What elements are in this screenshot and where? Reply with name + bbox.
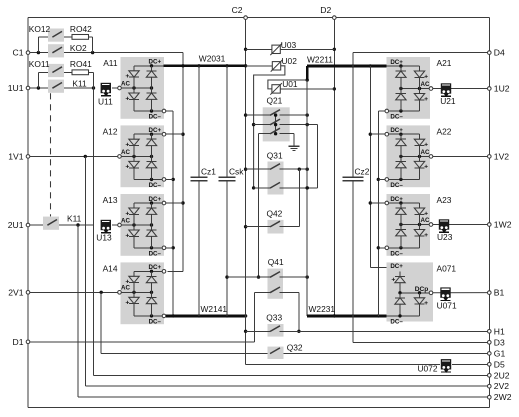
svg-text:U21: U21 [440,96,456,106]
svg-text:D3: D3 [494,337,505,347]
terminal 1V1 [8,151,30,161]
wire A23 exits [370,201,388,249]
wire 1V2 row [433,155,489,157]
svg-text:W2211: W2211 [307,55,333,65]
resistor RO42 [70,24,92,40]
terminal D2 [320,5,336,19]
svg-text:DC+: DC+ [149,127,162,134]
wire U01 riser [306,80,309,316]
svg-text:U071: U071 [437,301,457,311]
svg-text:U03: U03 [281,40,297,50]
svg-text:Q31: Q31 [267,150,283,160]
svg-text:DC–: DC– [149,319,162,326]
terminal D5 [488,359,506,369]
capacitor Csk [219,66,245,316]
wire 1W2 row [433,224,489,226]
wire D5 row [246,363,490,365]
wire A13 DC- exit [162,246,173,250]
svg-text:2U1: 2U1 [8,220,24,230]
field exciter A071 [387,262,457,325]
svg-text:DC+: DC+ [149,264,162,271]
svg-text:DC+: DC+ [390,196,403,203]
svg-text:2U2: 2U2 [494,370,510,380]
svg-text:G1: G1 [494,348,506,358]
svg-text:Csk: Csk [229,167,244,177]
terminal 1V2 [488,151,510,161]
node C2 line [244,20,247,365]
svg-text:+: + [125,279,129,286]
wire Q41 row2 to H1 row [297,293,300,333]
bus W2141 [162,304,247,318]
svg-text:+: + [424,210,428,217]
ground [289,134,300,151]
wire Q31 row1 to Q42 [298,169,300,227]
svg-text:AC: AC [121,80,130,87]
svg-text:KO12: KO12 [29,24,51,34]
svg-text:A21: A21 [437,58,452,68]
terminal 2U1 [8,220,30,230]
svg-text:+: + [125,73,129,80]
svg-text:+: + [424,96,428,103]
terminal G1 [488,348,506,358]
terminal 2U2 [488,370,510,380]
svg-text:A13: A13 [103,195,118,205]
varistor U01 [268,78,334,94]
svg-text:D5: D5 [494,359,505,369]
wire A21 DC- exit [378,109,388,113]
svg-text:Cz2: Cz2 [355,167,370,177]
wire tap to 2V2 [85,156,489,386]
svg-text:U02: U02 [282,56,298,66]
wire KO12 branch [38,37,92,53]
svg-text:Q21: Q21 [267,96,283,106]
wire 1V1 row [28,155,120,158]
svg-text:C2: C2 [232,5,243,15]
terminal 2W2 [488,392,512,402]
svg-text:2W2: 2W2 [494,392,512,402]
svg-text:1V1: 1V1 [8,151,24,161]
svg-text:D4: D4 [494,48,505,58]
converter module A14 [103,262,164,325]
terminal D1 [13,337,30,347]
contact KO11 [29,59,64,77]
wire DC+ chain right [369,66,400,271]
disconnector Q31 [246,150,318,194]
svg-text:A071: A071 [437,264,457,274]
svg-text:DC–: DC– [390,114,403,121]
svg-text:DC–: DC– [390,250,403,257]
svg-text:2V2: 2V2 [494,381,510,391]
svg-text:+: + [125,95,129,102]
wire KO11 branch [38,72,93,88]
svg-text:+: + [125,300,129,307]
converter module A21 [387,57,452,121]
svg-text:DC+: DC+ [390,127,403,134]
current sensor U23 [437,219,453,242]
svg-text:1W2: 1W2 [494,220,512,230]
svg-text:U23: U23 [437,232,453,242]
wire 2U1 row [28,223,120,226]
svg-text:KO2: KO2 [70,43,87,53]
current sensor U13 [96,220,112,243]
bus W2231 [307,304,386,317]
svg-text:C1: C1 [13,48,24,58]
svg-text:A23: A23 [437,195,452,205]
terminal 2V2 [488,381,510,391]
svg-text:1V2: 1V2 [494,151,510,161]
wire A14 DC+ exit [162,270,166,274]
wire tap to 2W2 [78,225,489,397]
current sensor U11 [98,83,113,107]
wire A22 exits [370,132,388,181]
wire A12 DC+ exit [162,132,183,136]
disconnector Q33 [246,312,490,336]
terminal B1 [488,288,505,298]
svg-text:DC–: DC– [149,250,162,257]
svg-text:+: + [424,164,428,171]
converter module A13 [103,194,164,257]
wire D1 row [28,293,255,342]
disconnector Q41 [227,257,309,299]
terminal C1 [13,48,30,58]
svg-text:A11: A11 [103,58,118,68]
svg-text:Q41: Q41 [268,257,284,267]
wire Q21 row3 drop [257,134,260,279]
svg-text:D2: D2 [320,5,331,15]
svg-text:+: + [391,277,395,284]
svg-text:K11: K11 [72,78,87,88]
svg-text:A22: A22 [437,127,452,137]
wire 1U1 row [28,86,120,89]
terminal D4 [488,48,506,58]
varistor U02 [246,56,298,189]
svg-text:AC: AC [121,217,130,224]
wire tap to G1 row [101,292,489,353]
contact KO2 [48,43,87,57]
svg-text:U13: U13 [96,233,112,243]
svg-text:AC: AC [421,149,430,156]
svg-text:A14: A14 [103,264,118,274]
svg-text:W2141: W2141 [201,304,228,314]
svg-text:+: + [125,164,129,171]
converter module A22 [387,125,452,189]
current sensor U21 [440,83,456,106]
svg-text:Q32: Q32 [287,342,303,352]
svg-text:U11: U11 [98,97,113,107]
terminal 1W2 [488,220,512,230]
svg-text:DC–: DC– [149,114,162,121]
svg-text:AC: AC [421,81,430,88]
wire tap to 2U2 [94,88,490,375]
svg-text:+: + [424,232,428,239]
svg-text:1U2: 1U2 [494,84,510,94]
disconnector Q42 [246,209,300,234]
svg-text:DCp: DCp [415,286,429,293]
svg-text:RO42: RO42 [70,24,92,34]
bus W2031 [164,54,246,68]
svg-text:A12: A12 [103,127,118,137]
svg-text:1U1: 1U1 [8,83,24,93]
svg-text:DC–: DC– [390,182,403,189]
terminal H1 [488,326,506,336]
current sensor U071 [437,287,457,310]
svg-text:AC: AC [421,217,430,224]
converter module A12 [103,125,164,189]
wire A12 DC- exit [162,178,173,182]
wire A13 DC+ exit [162,201,183,205]
wire B1 row [433,292,489,294]
contact K11 lower [43,214,82,230]
svg-text:+: + [424,300,428,307]
node D2 line [333,20,336,318]
converter module A11 [103,57,164,121]
svg-text:RO41: RO41 [70,59,92,69]
terminal 1U1 [8,83,30,93]
svg-text:+: + [424,142,428,149]
svg-text:+: + [125,142,129,149]
contact KO12 [29,24,64,42]
varistor U03 [246,40,335,55]
converter module A23 [387,194,452,257]
wire C1 row [28,51,183,54]
svg-text:AC: AC [121,149,130,156]
svg-text:DC+: DC+ [390,263,403,270]
wire DC+ chain from C1 [168,53,185,272]
wire A11 DC- to chain [162,109,175,317]
svg-text:U01: U01 [282,79,298,89]
svg-text:W2231: W2231 [309,304,336,314]
svg-text:+: + [424,73,428,80]
svg-text:H1: H1 [494,326,505,336]
terminal 1U2 [488,84,510,94]
svg-text:D1: D1 [13,337,24,347]
wire Q21 row2 to Q31 row2 [316,125,318,188]
svg-text:K11: K11 [67,214,82,224]
contact K11 upper [48,78,87,92]
svg-text:W2031: W2031 [199,54,226,64]
mechanical link dashed [50,93,52,216]
svg-text:Q33: Q33 [266,312,282,322]
svg-text:DC+: DC+ [390,59,403,66]
svg-text:DC–: DC– [149,182,162,189]
wire 2V1 row [28,291,120,294]
terminal D3 [488,337,506,347]
terminal C2 [232,5,248,19]
svg-text:DC+: DC+ [149,196,162,203]
capacitor Cz2 [342,53,489,343]
capacitor Cz1 [191,66,217,316]
resistor RO41 [70,59,92,75]
surge absorber U072 [417,359,451,373]
svg-text:+: + [125,232,129,239]
disconnector Q32 [268,342,303,359]
svg-text:AC: AC [121,285,130,292]
wire DC- chain right [377,111,380,316]
svg-text:DC–: DC– [390,319,403,326]
svg-text:Q42: Q42 [267,209,283,219]
svg-text:B1: B1 [494,288,505,298]
bus W2211 [307,55,387,80]
svg-text:DC+: DC+ [149,59,162,66]
wire 1U2 row [433,88,489,90]
svg-text:+: + [125,210,129,217]
terminal 2V1 [8,287,30,297]
svg-text:U072: U072 [417,363,437,373]
svg-text:KO11: KO11 [29,59,50,69]
svg-text:2V1: 2V1 [8,287,24,297]
svg-text:Cz1: Cz1 [201,167,216,177]
grounding switch Q21 [246,96,318,142]
